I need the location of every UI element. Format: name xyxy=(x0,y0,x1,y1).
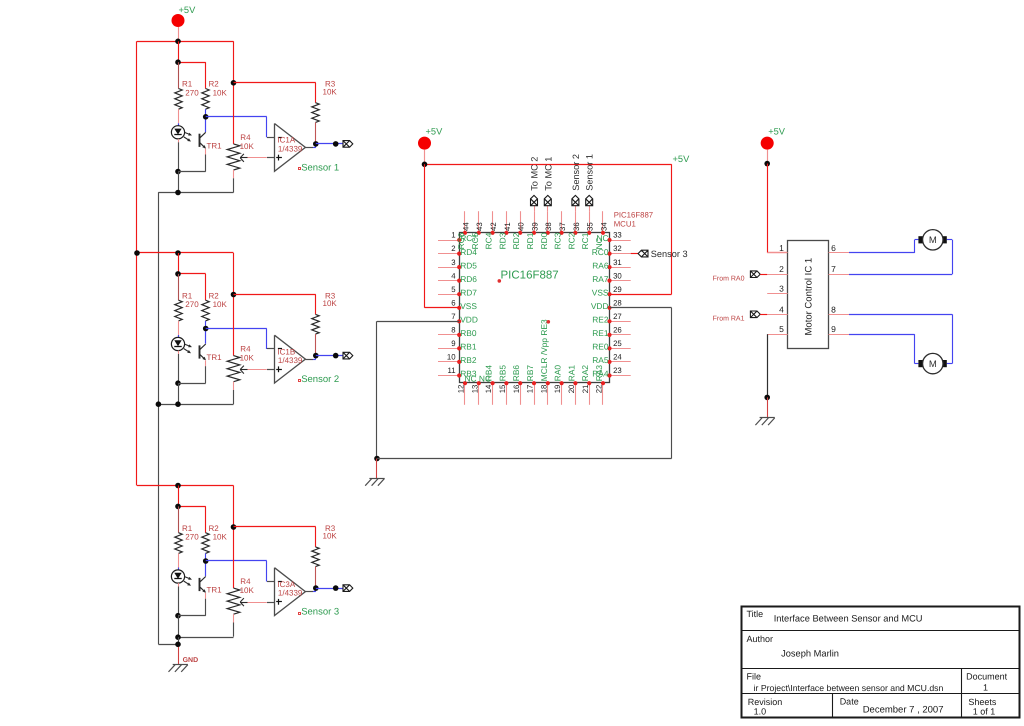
wire +5V rail (sensor 1) xyxy=(137,41,234,43)
svg-text:270: 270 xyxy=(185,533,199,542)
svg-text:8: 8 xyxy=(451,326,455,335)
svg-text:RD1: RD1 xyxy=(525,232,535,249)
wire ground line (sensor 2) xyxy=(158,404,233,406)
resistor R2 10K (sensor 2) xyxy=(202,300,209,321)
svg-text:RD5: RD5 xyxy=(460,260,477,270)
wire R1/R2 feed (sensor 3) xyxy=(178,486,180,507)
svg-text:NC: NC xyxy=(594,237,604,249)
pin 11 RB3 (MCU left) xyxy=(438,375,459,377)
svg-text:10K: 10K xyxy=(323,532,338,541)
wire ground loop to pin 28 VDD xyxy=(377,458,672,460)
pin 10 RB2 (MCU left) xyxy=(438,361,459,363)
node ground junction (motor section) xyxy=(764,395,770,401)
wire pin to port To MC 1 xyxy=(547,206,549,211)
svg-text:Sheets: Sheets xyxy=(968,697,997,707)
node emitter junction (sensor 1) xyxy=(175,169,181,175)
svg-text:MCLR /Vpp RE3: MCLR /Vpp RE3 xyxy=(539,319,549,381)
node ground line junction (sensor 2) xyxy=(175,401,181,407)
wire +5V to pin 1 xyxy=(767,164,769,253)
pin 40 RD2 (MCU top) xyxy=(520,211,522,233)
svg-text:7: 7 xyxy=(451,312,455,321)
svg-text:IC1B: IC1B xyxy=(277,347,295,356)
pin 17 RB7 (MCU bottom) xyxy=(534,383,536,405)
svg-text:R1: R1 xyxy=(182,80,193,89)
svg-text:22: 22 xyxy=(595,385,604,394)
pin 4 RD6 (MCU left) xyxy=(438,280,459,282)
wire +5V to pin 6 VSS xyxy=(424,164,426,307)
off-page connector Sensor 1 output port (sensor 1) xyxy=(343,141,353,148)
svg-text:20: 20 xyxy=(567,384,576,393)
svg-text:270: 270 xyxy=(185,89,199,98)
svg-text:10K: 10K xyxy=(240,354,255,363)
wire TR1 emitter to ground (sensor 2) xyxy=(205,366,207,383)
svg-text:RA7: RA7 xyxy=(592,274,609,284)
svg-text:RE2: RE2 xyxy=(592,315,609,325)
svg-text:43: 43 xyxy=(475,222,484,231)
resistor R2 10K (sensor 1) xyxy=(202,89,209,110)
svg-text:R2: R2 xyxy=(209,524,220,533)
svg-text:41: 41 xyxy=(503,222,512,231)
svg-text:VSS: VSS xyxy=(592,287,609,297)
svg-text:Interface Between Sensor and M: Interface Between Sensor and MCU xyxy=(774,613,923,623)
pin 22 RA3 (MCU bottom) xyxy=(602,383,604,405)
wire pin to port Sensor 2 xyxy=(575,206,577,211)
svg-text:1/4339: 1/4339 xyxy=(278,145,303,154)
wire comparator output (sensor 1) xyxy=(305,147,313,149)
svg-text:Title: Title xyxy=(747,609,764,619)
svg-text:3: 3 xyxy=(779,284,784,294)
resistor R3 10K (sensor 2) xyxy=(315,295,317,315)
IC body Motor Control IC 1 xyxy=(788,241,829,349)
wire pin to port Sensor 1 xyxy=(589,206,591,211)
wire ground line (sensor 3) xyxy=(178,637,234,639)
wire output to port (sensor 2) xyxy=(316,355,343,357)
pin 37 RC3 (MCU top) xyxy=(561,211,563,233)
svg-text:File: File xyxy=(747,672,762,682)
resistor R1 270 (sensor 3) xyxy=(178,506,180,532)
svg-text:27: 27 xyxy=(613,312,622,321)
LED D1 infrared emitter (sensor 1) xyxy=(178,123,180,126)
off-page connector port To MC 1 (MCU top) xyxy=(544,195,551,205)
svg-text:4: 4 xyxy=(451,271,456,280)
node R1 top (sensor 1) xyxy=(175,59,181,65)
node ground bus tap (sensor 2) xyxy=(156,401,162,407)
node output wire junction (sensor 3) xyxy=(333,585,339,591)
svg-text:RA1: RA1 xyxy=(566,365,576,382)
wire From RA0 to pin 2 xyxy=(760,274,767,276)
off-page connector port From RA0 xyxy=(750,271,760,278)
svg-text:18: 18 xyxy=(539,385,548,394)
svg-text:10K: 10K xyxy=(213,300,228,309)
resistor R2 10K (sensor 3) xyxy=(202,533,209,554)
node output/R3 junction (sensor 2) xyxy=(313,353,319,359)
pin 1 (motor IC left) xyxy=(767,252,787,254)
pin 5 RD7 (MCU left) xyxy=(438,294,459,296)
wire +5V to pin 29 VSS xyxy=(671,164,673,294)
ground symbol GND (bottom left) xyxy=(178,647,180,665)
svg-text:13: 13 xyxy=(470,385,479,394)
svg-text:PIC16F887: PIC16F887 xyxy=(614,211,653,220)
svg-text:PIC16F887: PIC16F887 xyxy=(501,270,559,282)
wire comparator output (sensor 2) xyxy=(305,359,313,361)
svg-text:RC5: RC5 xyxy=(470,232,480,249)
svg-text:RA5: RA5 xyxy=(592,355,609,365)
svg-text:5: 5 xyxy=(779,324,784,334)
wire ground loop pin 7 VDD xyxy=(377,321,459,323)
svg-text:RB0: RB0 xyxy=(460,328,477,338)
wire output to port (sensor 1) xyxy=(316,143,343,145)
pin 1 RC7 (MCU left) xyxy=(438,240,459,242)
resistor R1 270 (sensor 1) xyxy=(178,62,180,88)
svg-text:Sensor 3: Sensor 3 xyxy=(651,249,688,259)
pin 4 (motor IC left) xyxy=(767,314,787,316)
wire TR1 emitter to ground (sensor 3) xyxy=(205,599,207,616)
svg-text:Revision: Revision xyxy=(748,697,783,707)
wire comparator output (sensor 3) xyxy=(305,591,313,593)
node bus tap (sensor 2) xyxy=(134,250,140,256)
potentiometer R4 10K (sensor 2) xyxy=(233,253,235,295)
pin 31 RA6 (MCU right) xyxy=(610,267,631,269)
svg-text:9: 9 xyxy=(831,324,836,334)
pin 12 NC (MCU bottom) xyxy=(464,383,466,405)
svg-text:IC3A: IC3A xyxy=(277,580,295,589)
svg-text:7: 7 xyxy=(831,264,836,274)
resistor R3 10K (sensor 3) xyxy=(315,527,317,547)
svg-text:To MC 2: To MC 2 xyxy=(530,157,540,191)
svg-text:RC6: RC6 xyxy=(456,232,466,249)
svg-text:1.0: 1.0 xyxy=(754,707,767,717)
svg-text:RB1: RB1 xyxy=(460,342,477,352)
pin 9 RB1 (MCU left) xyxy=(438,348,459,350)
node R2/TR1 junction (sensor 3) xyxy=(203,558,209,564)
svg-text:1: 1 xyxy=(779,243,784,253)
op-amp comparator IC3A 1/4 339 (sensor 3) xyxy=(275,568,306,616)
pin 6 VSS (MCU left) xyxy=(438,307,459,309)
node R1 top (sensor 2) xyxy=(175,271,181,277)
wire +5V rail (sensor 3) xyxy=(137,485,234,487)
svg-text:Sensor 1: Sensor 1 xyxy=(301,162,339,173)
pin 43 RC5 (MCU top) xyxy=(478,211,480,233)
svg-text:RB5: RB5 xyxy=(497,365,507,382)
pin 39 RD1 (MCU top) xyxy=(534,211,536,233)
svg-text:RA2: RA2 xyxy=(580,365,590,382)
pin 3 (motor IC left) xyxy=(767,293,787,295)
svg-text:39: 39 xyxy=(530,222,539,231)
svg-text:Sensor 2: Sensor 2 xyxy=(301,374,339,385)
wire comparator inverting input (sensor 2) xyxy=(206,328,267,330)
svg-text:6: 6 xyxy=(451,298,455,307)
pin 18 MCLR /Vpp RE3 (MCU bottom) xyxy=(547,383,549,405)
svg-text:31: 31 xyxy=(613,258,622,267)
node GND junction (sensor 3) xyxy=(175,642,181,648)
svg-text:11: 11 xyxy=(448,366,456,375)
node output wire junction (sensor 2) xyxy=(333,353,339,359)
pin 29 VSS (MCU right) xyxy=(610,294,631,296)
svg-text:10K: 10K xyxy=(323,299,338,308)
off-page connector port To MC 2 (MCU top) xyxy=(531,195,538,205)
svg-text:RB7: RB7 xyxy=(525,365,535,382)
ground bus (left vertical) xyxy=(158,192,160,644)
svg-text:8: 8 xyxy=(831,304,836,314)
wire pin 9 to motor M2 xyxy=(849,334,915,336)
svg-text:1: 1 xyxy=(983,683,988,693)
svg-text:16: 16 xyxy=(512,385,521,394)
svg-text:From RA1: From RA1 xyxy=(713,315,745,322)
wire R1/R2 feed (sensor 1) xyxy=(178,41,180,62)
svg-text:RD0: RD0 xyxy=(539,232,549,249)
motor M2 xyxy=(918,360,923,367)
svg-text:VDD: VDD xyxy=(460,315,478,325)
wire From RA1 to pin 4 xyxy=(760,314,767,316)
svg-text:R1: R1 xyxy=(182,291,193,300)
node R2/TR1 junction (sensor 2) xyxy=(203,326,209,332)
pin 28 VDD (MCU right) xyxy=(610,307,631,309)
off-page connector port Sensor 2 (MCU top) xyxy=(572,195,579,205)
svg-text:Author: Author xyxy=(747,634,774,644)
op-amp comparator IC1B 1/4 339 (sensor 2) xyxy=(275,335,306,383)
phototransistor TR1 (sensor 1) xyxy=(205,117,207,132)
off-page connector port From RA1 xyxy=(750,311,760,318)
power bus +5V (left vertical) xyxy=(136,41,138,485)
svg-text:30: 30 xyxy=(613,271,622,280)
node R4 top / R3 feed (sensor 1) xyxy=(231,80,237,86)
svg-text:10K: 10K xyxy=(240,142,255,151)
svg-text:RA3: RA3 xyxy=(594,365,604,382)
+5V power symbol (motor section) xyxy=(761,137,774,150)
pin 2 RD4 (MCU left) xyxy=(438,253,459,255)
svg-text:40: 40 xyxy=(517,222,526,231)
wire R4 bottom to ground (sensor 1) xyxy=(233,178,235,192)
pin 35 RC1 (MCU top) xyxy=(589,211,591,233)
pin 36 RC2 (MCU top) xyxy=(575,211,577,233)
svg-text:M: M xyxy=(929,235,937,246)
svg-text:3: 3 xyxy=(451,258,455,267)
svg-text:RC4: RC4 xyxy=(484,232,494,249)
wire R1/R2 feed (sensor 2) xyxy=(178,253,180,274)
svg-text:GND: GND xyxy=(183,657,199,664)
svg-text:37: 37 xyxy=(558,222,567,231)
wire LED cathode to ground (sensor 3) xyxy=(178,587,180,616)
svg-text:RE0: RE0 xyxy=(592,342,609,352)
resistor R1 270 (sensor 2) xyxy=(178,274,180,300)
wire +5V rail (MCU) xyxy=(425,164,672,166)
svg-text:+5V: +5V xyxy=(426,126,444,136)
pin 7 VDD (MCU left) xyxy=(438,321,459,323)
potentiometer R4 10K (sensor 1) xyxy=(233,41,235,83)
svg-text:IC1A: IC1A xyxy=(277,136,295,145)
microcontroller U1 PIC16F887 body xyxy=(460,233,610,383)
node ground line junction (sensor 1) xyxy=(175,190,181,196)
wire R4 bottom to ground (sensor 2) xyxy=(233,390,235,404)
svg-text:VSS: VSS xyxy=(460,301,477,311)
svg-text:32: 32 xyxy=(613,244,622,253)
pin 38 RD0 (MCU top) xyxy=(547,211,549,233)
svg-text:29: 29 xyxy=(613,285,622,294)
svg-text:Document: Document xyxy=(966,672,1008,682)
wire comparator inverting input (sensor 3) xyxy=(206,560,267,562)
node emitter junction (sensor 3) xyxy=(175,613,181,619)
pin 32 RC0 (MCU right) xyxy=(610,253,631,255)
svg-text:Joseph Marlin: Joseph Marlin xyxy=(781,649,839,659)
node +5V rail junction (sensor 1) xyxy=(175,39,181,45)
pin 16 RB6 (MCU bottom) xyxy=(520,383,522,405)
pin 25 RE0 (MCU right) xyxy=(610,348,631,350)
svg-text:4: 4 xyxy=(779,304,784,314)
wire pin 32 RC0 to Sensor 3 port xyxy=(631,253,638,255)
svg-text:Sensor 1: Sensor 1 xyxy=(585,154,595,191)
node R2/TR1 junction (sensor 1) xyxy=(203,114,209,120)
pin 2 (motor IC left) xyxy=(767,274,787,276)
wire output to port (sensor 3) xyxy=(316,588,343,590)
pin 7 (motor IC right) xyxy=(829,274,849,276)
svg-text:33: 33 xyxy=(613,231,622,240)
svg-text:10K: 10K xyxy=(213,89,228,98)
svg-text:26: 26 xyxy=(613,326,622,335)
motor M1 xyxy=(918,236,923,243)
pin 42 RC4 (MCU top) xyxy=(492,211,494,233)
svg-text:To MC 1: To MC 1 xyxy=(543,157,553,191)
svg-text:10K: 10K xyxy=(213,533,228,542)
pin 26 RE1 (MCU right) xyxy=(610,334,631,336)
node emitter junction (sensor 2) xyxy=(175,380,181,386)
svg-text:1 of 1: 1 of 1 xyxy=(973,707,996,717)
svg-text:12: 12 xyxy=(457,385,466,394)
resistor R3 10K (sensor 1) xyxy=(315,83,317,103)
svg-text:TR1: TR1 xyxy=(207,353,223,362)
svg-text:RC3: RC3 xyxy=(553,232,563,249)
node ground junction (MCU) xyxy=(374,456,380,462)
svg-text:1: 1 xyxy=(451,231,455,240)
svg-text:36: 36 xyxy=(572,222,581,231)
off-page connector port Sensor 3 (MCU right) xyxy=(638,250,648,257)
wire LED cathode to ground (sensor 1) xyxy=(178,142,180,171)
pin 24 RA5 (MCU right) xyxy=(610,361,631,363)
svg-text:R4: R4 xyxy=(240,577,251,586)
wire ground line (sensor 1) xyxy=(158,192,233,194)
svg-text:RD7: RD7 xyxy=(460,287,477,297)
svg-text:10K: 10K xyxy=(323,88,338,97)
svg-text:34: 34 xyxy=(599,222,608,231)
svg-text:+5V: +5V xyxy=(768,126,786,136)
node +5V junction (MCU) xyxy=(422,162,428,168)
svg-text:5: 5 xyxy=(451,285,456,294)
node output/R3 junction (sensor 1) xyxy=(313,141,319,147)
svg-text:R2: R2 xyxy=(209,80,220,89)
svg-text:44: 44 xyxy=(461,222,470,231)
svg-text:RB6: RB6 xyxy=(511,365,521,382)
node +5V rail junction (sensor 2) xyxy=(175,250,181,256)
phototransistor TR1 (sensor 3) xyxy=(205,561,207,576)
+5V power symbol (sensor 1) xyxy=(172,14,185,27)
off-page connector Sensor 2 output port (sensor 2) xyxy=(343,352,353,359)
potentiometer R4 10K (sensor 3) xyxy=(233,486,235,528)
svg-text:Motor Control IC 1: Motor Control IC 1 xyxy=(804,258,815,336)
svg-text:15: 15 xyxy=(498,384,507,393)
svg-text:10K: 10K xyxy=(240,586,255,595)
svg-text:M: M xyxy=(929,359,937,370)
svg-text:23: 23 xyxy=(613,366,622,375)
svg-text:28: 28 xyxy=(613,298,622,307)
pin 20 RA1 (MCU bottom) xyxy=(575,383,577,405)
svg-text:10: 10 xyxy=(447,353,456,362)
svg-text:RC1: RC1 xyxy=(580,232,590,249)
node output/R3 junction (sensor 3) xyxy=(313,585,319,591)
svg-text:RE1: RE1 xyxy=(592,328,609,338)
pin 9 (motor IC right) xyxy=(829,334,849,336)
wire comparator inverting input (sensor 1) xyxy=(206,116,267,118)
+5V power symbol (MCU) xyxy=(418,137,431,150)
svg-text:RD6: RD6 xyxy=(460,274,477,284)
pin 44 RC6 (MCU top) xyxy=(464,211,466,233)
svg-text:24: 24 xyxy=(613,353,622,362)
pin 33 NC (MCU right) xyxy=(610,240,631,242)
wire pin 5 to ground xyxy=(767,334,769,336)
wire +5V to R3 (sensor 2) xyxy=(234,294,316,296)
svg-text:42: 42 xyxy=(489,222,498,231)
LED D1 infrared emitter (sensor 3) xyxy=(178,568,180,571)
svg-text:Sensor 2: Sensor 2 xyxy=(571,154,581,191)
wire pin 7 to motor M1 xyxy=(849,274,952,276)
svg-text:RC2: RC2 xyxy=(566,232,576,249)
svg-text:R4: R4 xyxy=(240,345,251,354)
svg-text:17: 17 xyxy=(526,385,535,394)
svg-text:1/4339: 1/4339 xyxy=(278,356,303,365)
svg-text:14: 14 xyxy=(484,384,493,393)
svg-text:R2: R2 xyxy=(209,291,220,300)
svg-text:Date: Date xyxy=(840,697,859,707)
svg-text:RA6: RA6 xyxy=(592,260,609,270)
svg-text:RD2: RD2 xyxy=(511,232,521,249)
node R1 top (sensor 3) xyxy=(175,504,181,510)
svg-text:NC NC: NC NC xyxy=(465,374,492,384)
ground symbol (MCU) xyxy=(376,459,378,479)
wire +5V to R3 (sensor 1) xyxy=(234,82,316,84)
node R4 top / R3 feed (sensor 2) xyxy=(231,292,237,298)
svg-text:1/4339: 1/4339 xyxy=(278,589,303,598)
svg-text:2: 2 xyxy=(451,244,455,253)
wire +5V to R3 (sensor 3) xyxy=(234,526,316,528)
svg-text:Sensor 3: Sensor 3 xyxy=(301,607,339,618)
svg-text:December 7 , 2007: December 7 , 2007 xyxy=(863,705,944,716)
svg-text:RB2: RB2 xyxy=(460,355,477,365)
svg-text:270: 270 xyxy=(185,300,199,309)
svg-text:2: 2 xyxy=(779,264,784,274)
svg-text:TR1: TR1 xyxy=(207,142,223,151)
node +5V rail junction (sensor 3) xyxy=(175,483,181,489)
svg-text:6: 6 xyxy=(831,243,836,253)
svg-text:38: 38 xyxy=(544,222,553,231)
svg-text:+5V: +5V xyxy=(179,5,197,15)
svg-text:25: 25 xyxy=(613,339,622,348)
svg-text:21: 21 xyxy=(581,385,590,394)
pin 15 RB5 (MCU bottom) xyxy=(506,383,508,405)
off-page connector Sensor 3 output port (sensor 3) xyxy=(343,585,353,592)
pin 3 RD5 (MCU left) xyxy=(438,267,459,269)
svg-text:TR1: TR1 xyxy=(207,586,223,595)
svg-text:19: 19 xyxy=(553,385,562,394)
svg-text:RD3: RD3 xyxy=(497,232,507,249)
svg-text:R4: R4 xyxy=(240,133,251,142)
node R4 top / R3 feed (sensor 3) xyxy=(231,524,237,530)
wire pin to port To MC 2 xyxy=(534,206,536,211)
svg-text:9: 9 xyxy=(451,339,455,348)
svg-text:+5V: +5V xyxy=(673,154,691,164)
pin 13 NC (MCU bottom) xyxy=(478,383,480,405)
svg-text:RA0: RA0 xyxy=(553,365,563,382)
phototransistor TR1 (sensor 2) xyxy=(205,329,207,344)
pin 8 (motor IC right) xyxy=(829,314,849,316)
svg-text:MCU1: MCU1 xyxy=(614,220,636,229)
